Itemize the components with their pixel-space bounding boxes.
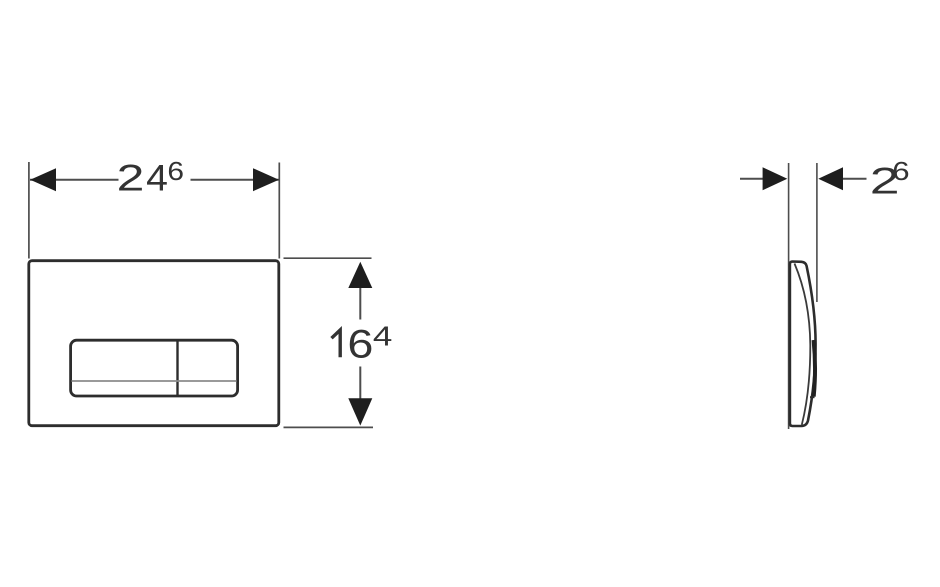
thickness dimension line right outside <box>842 178 867 180</box>
extension line left of thickness dimension <box>788 163 790 429</box>
svg-text:6: 6 <box>892 157 909 186</box>
flush plate outline (front view) <box>29 261 279 426</box>
svg-text:6: 6 <box>347 323 373 367</box>
thickness dimension arrowhead pointing right <box>763 167 788 190</box>
svg-text:4: 4 <box>373 320 392 352</box>
extension line top of height dimension <box>284 257 372 259</box>
buttons outline <box>71 340 238 396</box>
extension line left of width dimension <box>28 162 30 259</box>
width dimension arrowhead right <box>253 168 279 191</box>
thickness dimension line left outside <box>740 178 764 180</box>
svg-text:6: 6 <box>167 157 184 186</box>
height dimension arrowhead down <box>348 398 372 425</box>
height dimension line lower segment <box>359 367 361 399</box>
width dimension arrowhead left <box>30 168 56 191</box>
button side profile bottom step <box>810 396 815 398</box>
svg-text:2: 2 <box>117 158 145 199</box>
svg-text:4: 4 <box>146 158 168 200</box>
button divider <box>176 340 178 396</box>
height dimension arrowhead up <box>348 262 372 288</box>
profile inner face line <box>795 264 811 425</box>
plate side profile outline <box>790 262 816 427</box>
height dimension line upper segment <box>359 287 361 320</box>
extension line right of thickness dimension <box>816 163 818 302</box>
width dimension line left segment <box>30 179 119 181</box>
extension line bottom of height dimension <box>284 426 374 428</box>
height label digit 1 <box>332 330 341 357</box>
thickness dimension arrowhead pointing left <box>818 167 843 190</box>
button groove line <box>72 380 237 382</box>
button side profile <box>814 340 815 397</box>
extension line right of width dimension <box>278 163 280 259</box>
width dimension line right segment <box>191 179 279 181</box>
